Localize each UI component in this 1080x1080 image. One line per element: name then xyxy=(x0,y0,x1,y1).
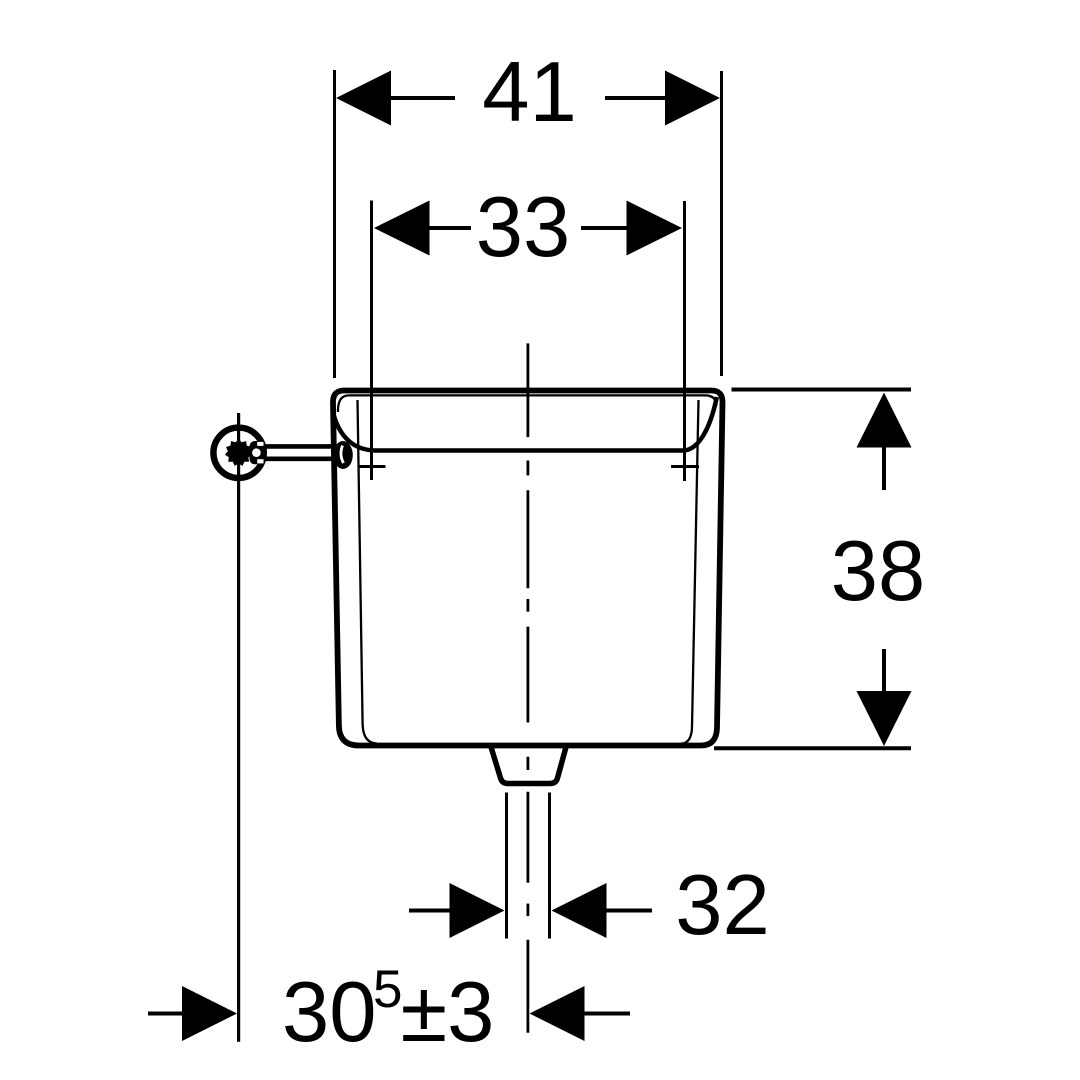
dimension 30+5/-3: right arrowhead xyxy=(530,986,585,1041)
tank water-line lip (left curve, horizontal, right curve) xyxy=(334,397,717,451)
dimension 41: dimension line right segment xyxy=(605,96,667,100)
svg-text:30: 30 xyxy=(282,965,377,1060)
dimension 33: right extension line xyxy=(683,201,686,481)
dimension 38: upper arrowhead xyxy=(857,393,912,448)
tank inner left wall line xyxy=(358,400,378,744)
svg-text:32: 32 xyxy=(675,858,770,953)
dimension 33: left cross tick xyxy=(359,465,386,468)
svg-text:33: 33 xyxy=(476,180,571,275)
flush valve spigot below tank xyxy=(491,747,566,784)
tank inner right wall line xyxy=(681,400,699,744)
actuation knob knurled center xyxy=(225,439,252,466)
center line (vertical dash-dot axis of cistern) xyxy=(527,343,530,1032)
dimension 38: top extension line xyxy=(732,388,912,392)
rod grommet at tank wall xyxy=(333,441,353,469)
dimension 33: left extension line xyxy=(370,201,373,481)
svg-text:±3: ±3 xyxy=(401,965,495,1060)
actuation rod upper line xyxy=(265,444,336,449)
dimension 32: left arrowhead xyxy=(450,883,505,938)
dimension 30+5/-3: left arrowhead xyxy=(182,986,237,1041)
svg-text:38: 38 xyxy=(831,524,926,619)
dimension 41: dimension line left segment xyxy=(389,96,455,100)
flush pipe left wall xyxy=(505,793,508,939)
dimension 32: right arrowhead xyxy=(552,883,607,938)
actuation knob outer ring xyxy=(213,428,263,478)
flush pipe right wall xyxy=(548,793,551,939)
svg-text:5: 5 xyxy=(373,960,402,1019)
dimension 38: lower tail line xyxy=(882,649,886,692)
dimension 32: left tail line xyxy=(409,909,451,913)
dimension 33: left arrowhead xyxy=(374,201,430,256)
dimension 33: right cross tick xyxy=(671,465,699,468)
dimension 41: left extension line xyxy=(333,70,336,378)
dimension 33: right arrowhead xyxy=(627,201,683,256)
dimension 38: lower arrowhead xyxy=(857,691,912,746)
dimension 41: left arrowhead xyxy=(336,71,391,126)
dimension 32: right tail line xyxy=(606,909,652,913)
actuation knob vertical axis line xyxy=(237,413,240,1042)
dimension 33: dimension line right segment xyxy=(581,226,628,230)
dimension 33: dimension line left segment xyxy=(428,226,471,230)
dimension 38: upper tail line xyxy=(882,447,886,490)
dimension 30+5/-3: left tail line xyxy=(148,1012,183,1016)
cistern tank outer outline xyxy=(333,391,723,746)
dimension 38: bottom extension line xyxy=(714,746,911,750)
dimension 30+5/-3: right tail line xyxy=(585,1012,631,1016)
actuation rod lower line xyxy=(265,456,336,461)
svg-text:41: 41 xyxy=(482,45,577,140)
dimension 41: right extension line xyxy=(720,71,723,376)
clevis joint between knob and rod xyxy=(250,441,265,464)
dimension 41: right arrowhead xyxy=(665,71,720,126)
tank inner top rim line xyxy=(338,395,716,412)
